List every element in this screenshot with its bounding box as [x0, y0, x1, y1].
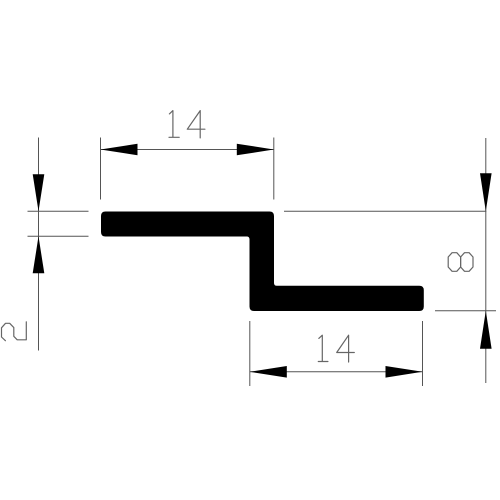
extension line left	[249, 321, 251, 386]
arrow left	[250, 366, 287, 378]
text 8 (rotated)	[448, 253, 473, 272]
Z-profile cross-section (solid black)	[101, 212, 424, 312]
dimension leader vertical line	[38, 138, 40, 351]
arrow down (above)	[33, 174, 45, 211]
dimension leader vertical line	[485, 138, 487, 383]
extension line right	[273, 138, 275, 200]
extension line (flange bottom, to left)	[28, 235, 89, 237]
arrow right	[386, 366, 423, 378]
arrow right	[237, 144, 274, 156]
extension line (flange top, to left)	[28, 210, 89, 212]
extension line left	[100, 138, 102, 200]
arrow up (below)	[480, 311, 492, 349]
arrow left	[101, 144, 138, 156]
dimension line	[250, 371, 423, 373]
text 14 (top)	[169, 111, 205, 138]
dimension line	[101, 149, 274, 151]
extension line (flange top, to right)	[284, 210, 486, 212]
text 14 (bottom)	[318, 335, 354, 362]
text 2 (rotated, reading bottom to top)	[2, 322, 27, 341]
arrow down (above)	[480, 173, 492, 211]
arrow up (below)	[33, 236, 45, 273]
extension line right	[422, 321, 424, 386]
extension line (bottom flange bottom, to right)	[435, 310, 496, 312]
